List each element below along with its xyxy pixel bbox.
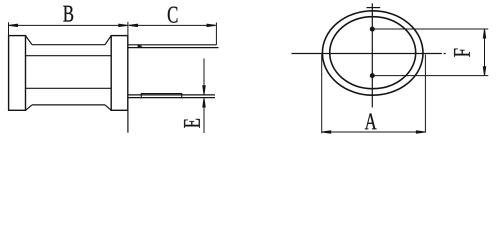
- label C: [168, 7, 178, 23]
- core barrel top line: [26, 55, 112, 57]
- upper pin dot: [370, 27, 375, 32]
- dimension A line with arrows: [322, 131, 425, 133]
- dimension B extension line right (shared with C): [127, 22, 129, 36]
- label B: [63, 6, 73, 22]
- label A: [365, 113, 377, 129]
- winding area top edge: [32, 44, 105, 46]
- winding area bottom edge: [32, 104, 105, 106]
- right flange of bobbin (side view): [111, 36, 128, 111]
- top chamfer left: [26, 36, 33, 45]
- dimension B line with arrows: [9, 24, 128, 26]
- lower lead sleeve: [141, 94, 181, 99]
- horizontal centerline end dash: [444, 53, 446, 55]
- lower pin leader line: [372, 75, 488, 77]
- label F (rotated): [454, 49, 470, 57]
- dimension C extension line right: [215, 23, 217, 45]
- dimension C line with arrows: [129, 24, 216, 26]
- dimension E lower arrow: [203, 98, 205, 133]
- dimension E upper arrow: [203, 59, 205, 95]
- inner ellipse (top view): [330, 17, 416, 89]
- lower lead wire: [128, 95, 215, 98]
- horizontal centerline: [292, 53, 442, 55]
- bottom chamfer left: [26, 105, 33, 110]
- dimension B extension line left: [8, 22, 10, 35]
- core barrel bottom line: [26, 87, 112, 89]
- dimension F line with arrows: [483, 29, 485, 75]
- lower pin dot: [370, 73, 375, 78]
- vertical centerline top tick: [367, 7, 381, 9]
- dimension A extension line left: [321, 55, 323, 134]
- bottom chamfer right: [105, 105, 111, 110]
- label E (rotated): [184, 119, 200, 128]
- upper lead wire: [128, 45, 219, 48]
- dimension A extension line right: [424, 55, 426, 133]
- left flange of bobbin (side view): [9, 36, 26, 111]
- vertical centerline: [371, 3, 373, 107]
- top chamfer right: [105, 36, 111, 45]
- projection line below right flange: [127, 110, 129, 132]
- upper pin leader line: [372, 28, 488, 30]
- outer ellipse (top view): [322, 11, 423, 95]
- upper lead kink mark: [138, 44, 143, 48]
